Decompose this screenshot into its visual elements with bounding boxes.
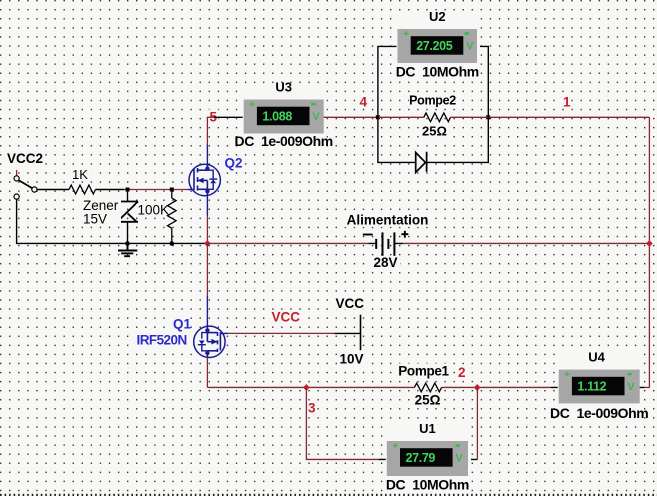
svg-text:VCC: VCC <box>336 296 365 311</box>
wire U2 branch left <box>378 46 398 117</box>
wire U1 branch right <box>468 458 477 460</box>
svg-text:25Ω: 25Ω <box>415 393 441 408</box>
wire diode branch left <box>378 117 416 162</box>
wire bottom net left <box>207 386 414 388</box>
svg-text:100K: 100K <box>138 203 170 218</box>
bottom edge dot row <box>0 494 657 496</box>
svg-text:10V: 10V <box>340 352 364 367</box>
junction right/mid <box>646 240 653 247</box>
svg-text:Pompe2: Pompe2 <box>409 94 456 108</box>
power VCC 10V <box>334 332 360 334</box>
wire node5 corner to Q2 drain <box>206 117 208 144</box>
junction Pompe2 right <box>486 115 490 119</box>
wire U4 right to vertical <box>640 386 645 388</box>
node 3 <box>307 401 317 416</box>
svg-text:U1: U1 <box>419 421 436 436</box>
svg-text:Q1: Q1 <box>173 316 192 331</box>
wire mid net to battery <box>207 242 368 244</box>
wire VCC2 stub <box>16 170 18 176</box>
svg-text:1: 1 <box>563 95 571 110</box>
resistor Pompe2 25Ohm <box>409 94 457 139</box>
wire corner to U3 <box>207 116 214 118</box>
node 5 <box>209 110 219 125</box>
svg-text:DC 10MOhm: DC 10MOhm <box>386 477 469 493</box>
transistor Q2 (MOSFET) <box>189 164 220 195</box>
battery Alimentation 28V <box>363 231 409 256</box>
resistor Pompe1 25Ohm <box>398 364 449 408</box>
svg-text:Alimentation: Alimentation <box>347 213 429 228</box>
junction Q2-source / mid net <box>204 240 211 247</box>
transistor Q1 IRF520N (MOSFET, rotated 180) <box>194 326 225 357</box>
label Q1 <box>172 316 192 331</box>
svg-text:2: 2 <box>458 365 466 380</box>
svg-text:Pompe1: Pompe1 <box>398 364 449 379</box>
node 1 <box>562 94 571 110</box>
svg-text:U3: U3 <box>275 80 292 95</box>
junction (100K bottom) <box>170 241 175 246</box>
wire switch to R 1K <box>37 189 69 191</box>
multimeter U4 <box>550 350 648 422</box>
label VCC (net, red) <box>270 310 304 325</box>
svg-text:V: V <box>312 111 320 123</box>
junction node2 <box>474 384 481 391</box>
multimeter U1 <box>386 421 471 494</box>
svg-text:VCC2: VCC2 <box>7 151 43 166</box>
multimeter U2 <box>396 9 480 81</box>
svg-text:U4: U4 <box>588 350 605 365</box>
switch S1 <box>14 176 37 199</box>
ground <box>118 243 137 256</box>
svg-text:27.79: 27.79 <box>406 451 436 465</box>
junction Pompe2 left <box>376 115 380 119</box>
wire switch bottom to ground rail <box>17 199 208 243</box>
label Q2 <box>223 156 243 171</box>
svg-text:V: V <box>466 40 474 52</box>
svg-text:Q2: Q2 <box>225 156 243 171</box>
svg-text:DC 10MOhm: DC 10MOhm <box>396 64 479 80</box>
wire right vertical (net 1) <box>648 117 650 387</box>
wire Q1 gate stub <box>220 332 228 334</box>
resistor 1K <box>68 167 96 194</box>
wire U1 branch left <box>306 387 378 459</box>
resistor 100K <box>136 190 176 244</box>
junction (zener bottom) <box>125 241 130 246</box>
svg-text:DC 1e-009Ohm: DC 1e-009Ohm <box>550 405 648 421</box>
wire mid net to Q1 drain <box>206 243 208 296</box>
junction node3 <box>303 384 310 391</box>
svg-text:15V: 15V <box>83 212 107 227</box>
svg-text:3: 3 <box>308 401 316 416</box>
svg-text:28V: 28V <box>373 255 397 270</box>
wire gate stub Q2 <box>187 189 194 191</box>
label Zener 15V <box>81 198 121 227</box>
junction (100K top) <box>170 188 174 192</box>
svg-text:27.205: 27.205 <box>416 39 453 53</box>
wire battery to right vertical <box>394 242 403 244</box>
wire Pompe2 leads <box>378 116 424 118</box>
wire U2 branch right <box>477 46 488 117</box>
wire U3 to node4 <box>324 116 378 118</box>
node VCC2 label <box>5 151 45 166</box>
svg-text:1K: 1K <box>72 167 88 182</box>
multimeter U3 <box>235 80 333 152</box>
svg-text:V: V <box>627 381 635 393</box>
junction (zener top) <box>126 188 130 192</box>
svg-text:1.088: 1.088 <box>262 109 292 123</box>
svg-text:U2: U2 <box>429 9 446 24</box>
wire Pompe1 to U4 <box>442 386 551 388</box>
label IRF520N <box>135 333 193 348</box>
wire Q1 source down <box>206 357 208 387</box>
svg-text:25Ω: 25Ω <box>422 124 447 139</box>
svg-text:1.112: 1.112 <box>577 379 606 393</box>
svg-text:VCC: VCC <box>272 310 301 325</box>
wire gate to VCC <box>228 332 334 334</box>
diode D2 <box>416 152 427 173</box>
node 2 <box>457 365 467 380</box>
wire Q2 source down <box>206 196 208 216</box>
label Alimentation <box>344 213 431 271</box>
wire 1K to gate Q2 <box>96 189 125 191</box>
svg-text:DC 1e-009Ohm: DC 1e-009Ohm <box>235 133 333 149</box>
svg-text:IRF520N: IRF520N <box>137 333 187 348</box>
svg-text:V: V <box>455 452 463 464</box>
svg-text:4: 4 <box>360 95 368 110</box>
node 4 <box>359 95 369 110</box>
wire diode branch right <box>427 117 489 162</box>
zener diode D1 15V <box>117 190 138 244</box>
